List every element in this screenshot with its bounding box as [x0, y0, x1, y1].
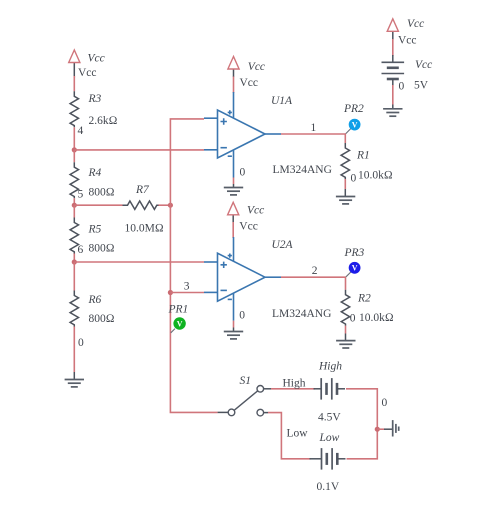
switch S1: [218, 375, 271, 416]
junction net 0: [375, 427, 380, 432]
ground (below R6): [65, 380, 84, 387]
resistor R3: [70, 91, 118, 137]
svg-text:2: 2: [312, 265, 318, 277]
op-amp U2A: [204, 237, 331, 322]
svg-text:V: V: [352, 120, 358, 129]
svg-text:R7: R7: [135, 184, 150, 196]
junction R7 right: [168, 203, 173, 208]
svg-text:S1: S1: [240, 375, 252, 387]
wire battery V2 to net 0: [346, 389, 377, 429]
wire battery V1 to ground: [392, 85, 394, 105]
wire U1A bottom power pin to ground: [233, 178, 235, 185]
probe PR2: [343, 103, 364, 134]
svg-text:U2A: U2A: [272, 239, 294, 251]
power Vcc (U2A): [228, 202, 265, 238]
wire U2A output to R2: [281, 277, 346, 290]
svg-text:10.0kΩ: 10.0kΩ: [358, 169, 393, 181]
wire S1 throw2 down to battery V3: [268, 413, 311, 459]
svg-text:800Ω: 800Ω: [89, 313, 115, 325]
wire U2A bottom power pin to ground: [233, 321, 235, 328]
svg-text:Vcc: Vcc: [247, 204, 264, 216]
resistor R7: [123, 184, 164, 235]
op-amp U1A: [204, 92, 332, 179]
svg-text:1: 1: [311, 122, 317, 134]
svg-text:Vcc: Vcc: [407, 18, 424, 30]
svg-text:High: High: [318, 360, 342, 372]
svg-text:R3: R3: [88, 93, 102, 105]
svg-text:Vcc: Vcc: [248, 61, 265, 73]
svg-text:Vcc: Vcc: [415, 59, 432, 71]
battery V2 High 4.5V: [314, 360, 346, 423]
resistor R4: [70, 150, 115, 205]
battery V1 Vcc 5V: [382, 55, 433, 93]
power Vcc (ladder top): [69, 50, 105, 91]
ground (U2A power): [224, 332, 243, 339]
svg-text:0: 0: [382, 397, 388, 409]
svg-text:10.0MΩ: 10.0MΩ: [125, 223, 164, 235]
probe PR3: [344, 247, 365, 277]
svg-text:0: 0: [351, 172, 357, 184]
resistor R6: [70, 262, 115, 380]
svg-text:0: 0: [239, 310, 245, 322]
wire node4 to U1A inverting input: [74, 149, 204, 151]
svg-text:0: 0: [78, 337, 84, 349]
ground (rotated, net 0): [393, 420, 399, 436]
svg-text:6: 6: [78, 244, 84, 256]
resistor R1: [341, 143, 393, 197]
node 4 junction: [72, 147, 77, 152]
svg-text:Vcc: Vcc: [78, 67, 97, 79]
svg-text:PR3: PR3: [344, 247, 365, 259]
wire R7 to node on feedback net: [159, 204, 171, 206]
svg-text:4: 4: [78, 125, 84, 137]
svg-text:R2: R2: [357, 293, 371, 305]
svg-text:0.1V: 0.1V: [317, 481, 340, 493]
svg-text:High: High: [283, 378, 306, 390]
svg-text:R4: R4: [88, 167, 102, 179]
wire node6 to U2A non-inverting input: [74, 261, 204, 263]
resistor R2: [341, 290, 394, 341]
svg-text:2.6kΩ: 2.6kΩ: [89, 115, 118, 127]
svg-text:0: 0: [240, 167, 246, 179]
svg-text:Vcc: Vcc: [240, 77, 259, 89]
svg-text:800Ω: 800Ω: [89, 187, 115, 199]
svg-text:Vcc: Vcc: [398, 34, 417, 46]
junction feedback to U2A inverting: [168, 290, 173, 295]
wire R3 to node 4: [73, 127, 75, 150]
wire junction to ground: [377, 428, 384, 430]
svg-text:LM324ANG: LM324ANG: [272, 308, 331, 320]
ground (V1): [383, 109, 402, 116]
svg-text:PR1: PR1: [168, 303, 189, 315]
svg-text:V: V: [352, 264, 358, 273]
svg-text:R1: R1: [356, 150, 370, 162]
wire battery V3 to net 0: [347, 429, 378, 459]
wire feedback net vertical: [170, 119, 217, 413]
svg-text:800Ω: 800Ω: [89, 243, 115, 255]
svg-text:Low: Low: [287, 428, 309, 440]
svg-text:U1A: U1A: [271, 95, 293, 107]
svg-text:R5: R5: [88, 224, 102, 236]
svg-text:5V: 5V: [414, 79, 429, 91]
svg-text:3: 3: [184, 281, 190, 293]
node 5 junction: [72, 203, 77, 208]
svg-text:10.0kΩ: 10.0kΩ: [359, 312, 394, 324]
node 6 junction: [72, 259, 77, 264]
svg-text:5: 5: [78, 189, 84, 201]
resistor R5: [70, 205, 115, 262]
ground (R2): [336, 341, 355, 348]
svg-text:V: V: [177, 319, 183, 328]
svg-text:Vcc: Vcc: [88, 53, 105, 65]
wire node5 to R7: [74, 204, 122, 206]
wire to U2A inverting input: [170, 292, 204, 294]
svg-text:0: 0: [399, 81, 405, 93]
svg-text:Low: Low: [319, 432, 340, 444]
svg-text:PR2: PR2: [343, 103, 364, 115]
ground (R1): [336, 197, 355, 204]
power Vcc (U1A): [228, 57, 265, 94]
wire U1A output to R1: [281, 134, 345, 143]
power Vcc (V1 source): [387, 18, 424, 56]
svg-text:LM324ANG: LM324ANG: [273, 164, 332, 176]
probe PR1: [168, 303, 189, 333]
svg-text:Vcc: Vcc: [239, 220, 258, 232]
battery V3 Low 0.1V: [310, 432, 346, 493]
svg-text:R6: R6: [88, 294, 102, 306]
svg-text:0: 0: [350, 312, 356, 324]
svg-text:4.5V: 4.5V: [318, 411, 341, 423]
wire S1 throw1 to battery V2: [271, 388, 315, 390]
ground (U1A power): [224, 188, 243, 195]
